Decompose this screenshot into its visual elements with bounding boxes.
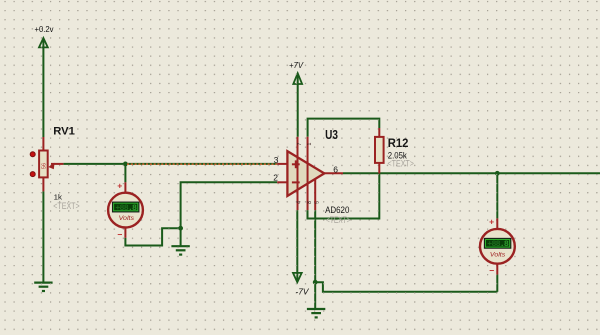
svg-text:U3: U3 xyxy=(325,127,338,142)
svg-text:<TEXT>: <TEXT> xyxy=(53,201,79,211)
svg-text:5: 5 xyxy=(315,201,321,204)
svg-text:1: 1 xyxy=(307,143,313,146)
svg-text:R12: R12 xyxy=(388,136,409,150)
svg-text:6: 6 xyxy=(333,164,338,174)
svg-text:+88.8: +88.8 xyxy=(487,240,509,249)
svg-text:4: 4 xyxy=(297,201,303,204)
svg-text:RV1: RV1 xyxy=(53,125,75,137)
svg-text:−: − xyxy=(117,229,122,239)
svg-text:7: 7 xyxy=(297,143,303,146)
svg-text:-7V: -7V xyxy=(296,287,310,296)
svg-text:<TEXT>: <TEXT> xyxy=(326,215,351,225)
svg-text:+: + xyxy=(117,180,122,190)
svg-text:+0.2v: +0.2v xyxy=(35,25,55,34)
svg-text:Volts: Volts xyxy=(119,215,135,222)
svg-text:AD620: AD620 xyxy=(325,205,349,215)
svg-text:3: 3 xyxy=(274,155,279,165)
svg-text:8: 8 xyxy=(307,201,313,204)
svg-text:Volts: Volts xyxy=(490,251,506,258)
svg-text:+88.8: +88.8 xyxy=(115,204,137,213)
svg-text:+: + xyxy=(489,217,494,227)
svg-text:+7V: +7V xyxy=(289,61,304,70)
svg-text:<TEXT>: <TEXT> xyxy=(388,159,414,169)
svg-text:56: 56 xyxy=(42,163,48,169)
svg-text:−: − xyxy=(489,266,494,276)
svg-text:2: 2 xyxy=(273,172,278,182)
